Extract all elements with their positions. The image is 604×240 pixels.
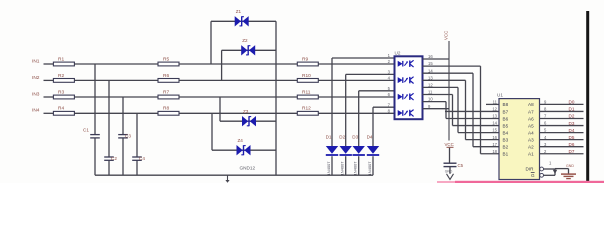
wire U1 pin 8 to net D1 xyxy=(540,110,584,112)
wire Z2 rail xyxy=(222,49,276,51)
svg-text:GND: GND xyxy=(566,164,574,168)
pin G bubble xyxy=(540,173,544,177)
wire row4 R12 to optocoupler pin 8 xyxy=(318,112,394,114)
wire U2 pin 12 to U1 pin 15 xyxy=(423,86,459,88)
capacitor C1 xyxy=(90,134,100,136)
svg-text:D2: D2 xyxy=(339,134,345,139)
wire DIR to ground xyxy=(544,168,556,170)
sheet border (black vertical crop line) xyxy=(586,11,589,183)
svg-text:D4: D4 xyxy=(569,128,575,133)
resistor R9 xyxy=(297,62,318,66)
svg-text:A8: A8 xyxy=(528,102,534,107)
TVS diode Z1 xyxy=(235,16,241,26)
wire IN3 stub xyxy=(44,96,54,98)
wire VCC to C5 xyxy=(449,148,451,163)
svg-text:B8: B8 xyxy=(503,102,509,107)
resistor R1 xyxy=(53,62,74,66)
wire row3 R7 to R11 xyxy=(179,96,297,98)
wire U1 pin 3 to net D6 xyxy=(540,146,584,148)
resistor R12 xyxy=(297,111,318,115)
TVS diode Z2 xyxy=(241,45,247,55)
svg-text:17: 17 xyxy=(492,142,497,147)
svg-text:D5: D5 xyxy=(569,135,575,140)
opto channel 3 symbol xyxy=(398,94,403,100)
svg-text:A6: A6 xyxy=(528,116,534,121)
wire U1 pin 11 stub xyxy=(486,103,499,105)
wire IN2 stub xyxy=(44,79,54,81)
svg-text:11: 11 xyxy=(493,100,498,105)
svg-text:D3: D3 xyxy=(352,134,358,139)
wire Z2 left stub from row2 xyxy=(221,50,223,80)
wire row3 R3 to R7 xyxy=(74,96,158,98)
resistor R7 xyxy=(158,95,179,99)
diode D4 1N4007 xyxy=(367,146,379,154)
svg-text:A5: A5 xyxy=(528,123,534,128)
wire row2 R6 to R10 xyxy=(179,79,297,81)
opto channel 2 symbol xyxy=(398,77,403,83)
svg-text:D2: D2 xyxy=(569,114,575,119)
svg-text:18: 18 xyxy=(492,149,497,154)
wire U1 pin 2 to net D7 xyxy=(540,153,584,155)
wire row1 R9 to optocoupler pin 2 xyxy=(318,63,394,65)
wire U1 pin 12 row xyxy=(445,110,499,112)
resistor R2 xyxy=(53,79,74,83)
svg-text:R6: R6 xyxy=(163,73,169,79)
svg-text:B3: B3 xyxy=(503,137,509,142)
svg-text:R3: R3 xyxy=(58,89,64,95)
wire row3 R11 to optocoupler pin 6 xyxy=(318,96,394,98)
wire clamp right vertical to GND12 bus xyxy=(275,21,277,175)
wire row4 R4 to R8 xyxy=(74,112,158,114)
wire U2 pin 16 to VCC xyxy=(423,58,450,60)
wire U1 pin 9 to net D0 xyxy=(540,103,584,105)
wire Z4 rail xyxy=(212,149,276,151)
capacitor C3 xyxy=(118,134,128,136)
svg-text:Z3: Z3 xyxy=(243,109,249,114)
wire U2 pin 11 to U1 pin 14 xyxy=(423,94,453,96)
svg-text:R7: R7 xyxy=(163,89,169,95)
wire IN1 stub xyxy=(44,63,54,65)
svg-text:R10: R10 xyxy=(302,73,311,79)
svg-text:C3: C3 xyxy=(125,134,131,139)
wire Z1 rail xyxy=(211,20,276,22)
svg-text:R12: R12 xyxy=(302,106,311,112)
svg-text:R11: R11 xyxy=(302,89,311,95)
resistor R10 xyxy=(297,79,318,83)
wire row1 R1 to R5 xyxy=(74,63,158,65)
svg-text:B6: B6 xyxy=(503,116,509,121)
svg-text:R8: R8 xyxy=(163,106,169,112)
wire GND12 bus xyxy=(95,174,373,176)
wire U2 pin 9 down to VCC node xyxy=(423,108,450,110)
resistor R5 xyxy=(158,62,179,66)
svg-text:G: G xyxy=(531,173,535,178)
wire U2 pin 3 to D2 xyxy=(346,73,395,75)
svg-text:IN1: IN1 xyxy=(32,58,40,64)
wire U1 pin 5 to net D4 xyxy=(540,132,584,134)
wire Z3 left stub from row3 xyxy=(219,97,221,121)
wire tap row2 down to C2 and GND12 bus xyxy=(108,80,110,157)
wire U1 pin 4 to net D5 xyxy=(540,139,584,141)
resistor R11 xyxy=(297,95,318,99)
svg-text:B5: B5 xyxy=(503,123,509,128)
pink watermark line at bottom xyxy=(437,181,457,183)
wire U1 pin 7 to net D2 xyxy=(540,118,584,120)
wire U2 pin 1 to D1 xyxy=(332,57,395,59)
resistor R3 xyxy=(53,95,74,99)
svg-text:A7: A7 xyxy=(528,109,534,114)
opto channel 4 symbol xyxy=(398,110,403,116)
svg-text:A1: A1 xyxy=(528,152,534,157)
svg-text:R1: R1 xyxy=(58,56,64,62)
wire row1 R5 to R9 xyxy=(179,63,297,65)
svg-text:D3: D3 xyxy=(569,121,575,126)
svg-text:D4: D4 xyxy=(367,134,373,139)
svg-text:C5: C5 xyxy=(458,163,464,168)
wire tap row3 down to C3 and GND12 bus xyxy=(122,97,124,135)
diode D1 1N4007 xyxy=(326,146,338,154)
svg-text:15: 15 xyxy=(492,128,497,133)
wire row2 R2 to R6 xyxy=(74,79,158,81)
svg-text:R5: R5 xyxy=(163,56,169,62)
svg-text:C1: C1 xyxy=(83,128,89,133)
IC U1 xyxy=(499,99,540,180)
pin DIR bubble xyxy=(540,167,544,171)
svg-text:Z4: Z4 xyxy=(238,138,244,143)
ground below C5 xyxy=(449,167,451,174)
svg-text:VCC: VCC xyxy=(445,142,454,147)
svg-text:U2: U2 xyxy=(395,51,401,56)
capacitor C2 xyxy=(104,156,114,158)
svg-text:D7: D7 xyxy=(569,149,575,154)
wire U2 pin 7 to D4 xyxy=(373,106,395,108)
svg-text:D1: D1 xyxy=(326,134,332,139)
svg-text:12: 12 xyxy=(492,107,497,112)
svg-text:1N4007: 1N4007 xyxy=(340,161,345,176)
wire U2 pin 15 to U1 pin 18 xyxy=(423,65,481,67)
svg-text:16: 16 xyxy=(492,135,497,140)
svg-text:B1: B1 xyxy=(503,152,509,157)
svg-text:D0: D0 xyxy=(569,100,575,105)
svg-text:1N4007: 1N4007 xyxy=(367,161,372,176)
resistor R8 xyxy=(158,111,179,115)
svg-text:D6: D6 xyxy=(569,142,575,147)
svg-text:GND: GND xyxy=(445,169,453,173)
wire U2 pin 14 to U1 pin 17 xyxy=(423,72,474,74)
diode D3 1N4007 xyxy=(353,146,365,154)
opto channel 1 symbol xyxy=(398,61,403,67)
svg-text:1N4007: 1N4007 xyxy=(326,161,331,176)
wire G to ground xyxy=(544,174,556,176)
svg-text:C4: C4 xyxy=(139,156,145,161)
svg-text:R2: R2 xyxy=(58,73,64,79)
svg-text:DIR: DIR xyxy=(526,167,535,172)
svg-text:B4: B4 xyxy=(503,130,509,135)
schematic background xyxy=(0,0,604,183)
svg-text:U1: U1 xyxy=(497,93,503,98)
resistor R6 xyxy=(158,79,179,83)
svg-text:B2: B2 xyxy=(503,145,509,150)
svg-text:VCC: VCC xyxy=(444,31,449,40)
resistor R4 xyxy=(53,111,74,115)
wire U2 pin 13 to U1 pin 16 xyxy=(423,79,466,81)
svg-text:R9: R9 xyxy=(302,56,308,62)
svg-text:A4: A4 xyxy=(528,130,534,135)
svg-text:D1: D1 xyxy=(569,107,575,112)
TVS diode Z3 xyxy=(242,116,248,126)
wire Z1 left stub from row1 xyxy=(210,21,212,64)
svg-text:C2: C2 xyxy=(111,156,117,161)
svg-text:A2: A2 xyxy=(528,145,534,150)
TVS diode Z4 xyxy=(237,145,243,155)
capacitor C5 xyxy=(444,162,457,164)
wire U2 pin 5 to D3 xyxy=(359,90,395,92)
wire tap row4 down to C4 and GND12 bus xyxy=(136,113,138,157)
wire U1 pin 6 to net D3 xyxy=(540,125,584,127)
svg-text:Z2: Z2 xyxy=(242,38,248,43)
svg-text:B7: B7 xyxy=(503,109,509,114)
wire IN4 stub xyxy=(44,112,54,114)
svg-text:IN2: IN2 xyxy=(32,75,40,81)
wire U2 pin 10 to U1 pin 13 xyxy=(423,101,447,103)
svg-text:GND12: GND12 xyxy=(240,166,256,171)
svg-text:IN4: IN4 xyxy=(32,108,40,114)
capacitor C4 xyxy=(132,156,142,158)
wire row4 R8 to R12 xyxy=(179,112,297,114)
svg-text:1N4007: 1N4007 xyxy=(353,161,358,176)
svg-text:14: 14 xyxy=(492,121,497,126)
wire tap row1 down to C1 and GND12 bus xyxy=(94,64,96,135)
wire row2 R10 to optocoupler pin 4 xyxy=(318,79,394,81)
wire Z3 rail xyxy=(220,120,276,122)
svg-text:13: 13 xyxy=(492,114,497,119)
optocoupler U2 xyxy=(395,56,423,119)
svg-text:R4: R4 xyxy=(58,106,64,112)
diode D2 1N4007 xyxy=(340,146,352,154)
svg-text:A3: A3 xyxy=(528,137,534,142)
svg-text:Z1: Z1 xyxy=(236,9,242,14)
wire Z4 left stub from row4 xyxy=(211,113,213,150)
svg-text:IN3: IN3 xyxy=(32,91,40,97)
